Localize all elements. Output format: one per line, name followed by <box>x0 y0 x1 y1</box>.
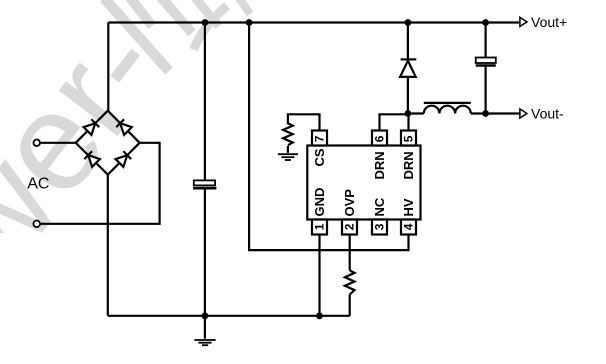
junction node ground rail at pin1 <box>316 312 323 319</box>
watermark mask <box>0 233 76 364</box>
bridge arm bottom-right <box>108 143 140 175</box>
wire bulk cap drop <box>204 23 206 181</box>
ground at R1 <box>278 154 298 160</box>
wire inductor right to Vout- <box>471 112 520 114</box>
diode D5 freewheeling <box>400 59 416 77</box>
bridge arm top-left <box>76 111 108 143</box>
svg-text:7: 7 <box>313 135 327 142</box>
watermark M strokes <box>104 0 250 71</box>
wire pin6 up and right to node <box>380 114 408 131</box>
terminal Vout- <box>520 106 564 122</box>
pin 5 box <box>401 131 416 146</box>
wire left drop from rail to bridge top <box>107 23 109 111</box>
wire node to inductor left <box>408 112 424 114</box>
capacitor C1 bulk electrolytic <box>193 180 216 188</box>
wire pin7 to CS resistor <box>288 114 320 131</box>
wire output cap bottom <box>485 67 487 114</box>
junction node top rail at diode <box>405 19 412 26</box>
pin 2 box <box>342 220 357 235</box>
pin 6 box <box>372 131 387 146</box>
bridge rectifier BR1 <box>76 111 140 175</box>
capacitor C2 output <box>476 58 496 66</box>
wire pin5 up to node <box>407 114 409 132</box>
inductor L1 <box>424 103 471 114</box>
resistor R1 CS <box>283 123 293 145</box>
junction node top rail at output cap <box>482 19 489 26</box>
AC terminal top <box>33 140 40 147</box>
wire HV feed <box>249 23 408 251</box>
wire diode top <box>407 23 409 60</box>
IC U1 body <box>307 146 420 220</box>
junction node drain/inductor <box>405 110 412 117</box>
svg-text:GND: GND <box>312 188 327 217</box>
watermark <box>0 0 192 364</box>
diode D3 bottom-left arm <box>84 151 100 167</box>
wire OVP resistor to ground rail <box>349 295 351 316</box>
resistor R2 OVP <box>345 270 355 294</box>
svg-text:NC: NC <box>372 197 387 216</box>
svg-text:Vout+: Vout+ <box>531 14 567 30</box>
svg-text:5: 5 <box>402 135 416 142</box>
wire AC bottom terminal to bridge right <box>40 143 159 224</box>
junction node inductor/output cap <box>482 110 489 117</box>
diode D2 top-right arm <box>116 119 132 135</box>
wire output cap top <box>485 23 487 58</box>
terminal Vout+ <box>520 14 567 30</box>
junction node ground rail at cap <box>202 312 209 319</box>
wire bulk cap to ground rail <box>204 189 206 316</box>
wire pin2 OVP down to resistor <box>349 234 351 271</box>
junction node top rail at bulk cap <box>202 19 209 26</box>
pin 1 box <box>312 220 327 235</box>
svg-text:HV: HV <box>401 198 416 216</box>
svg-text:1: 1 <box>313 223 327 230</box>
diode D1 top-left arm <box>84 119 100 135</box>
svg-text:DRN: DRN <box>401 151 416 179</box>
bridge arm bottom-left <box>76 143 108 175</box>
svg-text:Vout-: Vout- <box>531 106 564 122</box>
svg-text:OVP: OVP <box>342 189 357 217</box>
ground bottom center <box>194 340 215 345</box>
wire CS resistor to ground <box>287 146 289 153</box>
junction node top rail at HV <box>246 19 253 26</box>
svg-text:AC: AC <box>27 176 49 193</box>
AC terminal bottom <box>33 221 40 228</box>
svg-text:CS: CS <box>312 148 327 166</box>
wire diode bottom to node <box>407 77 409 114</box>
svg-text:DRN: DRN <box>372 151 387 179</box>
wire AC top terminal to bridge left <box>40 142 75 144</box>
wire bridge bottom to ground rail <box>107 175 109 316</box>
diode D4 bottom-right arm <box>116 151 132 167</box>
wire top rail <box>108 21 520 23</box>
svg-text:3: 3 <box>373 223 387 230</box>
svg-text:4: 4 <box>402 223 416 230</box>
wire ground rail <box>108 315 350 317</box>
pin 7 box <box>312 131 327 146</box>
wire ground stem <box>204 316 206 339</box>
svg-text:2: 2 <box>343 223 357 230</box>
pin 3 box <box>372 220 387 235</box>
wire pin1 GND down <box>318 234 320 316</box>
svg-text:6: 6 <box>373 135 387 142</box>
pin 4 box <box>401 220 416 235</box>
bridge arm top-right <box>108 111 140 143</box>
